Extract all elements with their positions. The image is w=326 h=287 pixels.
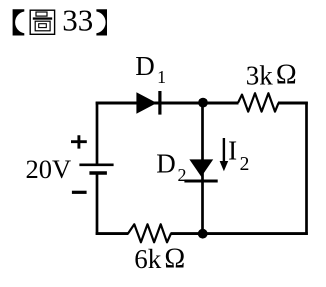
svg-text:1: 1 xyxy=(157,67,166,87)
svg-text:3kΩ: 3kΩ xyxy=(246,59,297,90)
resistor 3k ohm xyxy=(238,93,279,111)
title bracket 】 xyxy=(96,9,107,35)
wire left vertical upper segment (battery + side) xyxy=(96,102,99,165)
diode D1 xyxy=(136,91,160,115)
svg-text:D: D xyxy=(135,51,155,81)
svg-text:2: 2 xyxy=(240,154,250,175)
value label 3k ohm xyxy=(246,59,297,90)
battery 20V xyxy=(26,135,114,192)
svg-text:2: 2 xyxy=(178,165,187,185)
svg-text:I: I xyxy=(228,136,237,166)
value label 6k ohm xyxy=(134,243,185,274)
svg-text:D: D xyxy=(156,148,176,178)
label D2 xyxy=(156,148,186,185)
wire left vertical lower segment (battery - side) xyxy=(96,173,99,235)
title number 33 xyxy=(62,3,93,38)
node junction top (dot) xyxy=(198,98,208,108)
wire right vertical segment xyxy=(305,102,308,235)
wire top-left horizontal segment xyxy=(96,102,239,105)
wire bottom-right horizontal segment xyxy=(171,232,308,235)
minus sign xyxy=(72,191,87,194)
svg-text:33: 33 xyxy=(62,3,93,38)
label D1 xyxy=(135,51,166,87)
svg-text:6kΩ: 6kΩ xyxy=(134,243,185,274)
diode D2 xyxy=(184,159,217,181)
current arrow I2 xyxy=(220,138,229,171)
title character 圖 xyxy=(30,10,54,34)
label I2 xyxy=(228,136,249,175)
wire bottom-left horizontal segment xyxy=(96,232,129,235)
title bracket 【 xyxy=(13,9,25,35)
wire top-right horizontal segment xyxy=(278,102,308,105)
resistor 6k ohm xyxy=(128,224,171,242)
node junction bottom (dot) xyxy=(198,229,208,239)
battery short plate (-) xyxy=(89,171,107,174)
battery long plate (+) xyxy=(79,164,113,167)
svg-text:20V: 20V xyxy=(26,154,72,184)
plus sign xyxy=(71,135,87,148)
wire middle vertical branch xyxy=(201,103,204,234)
